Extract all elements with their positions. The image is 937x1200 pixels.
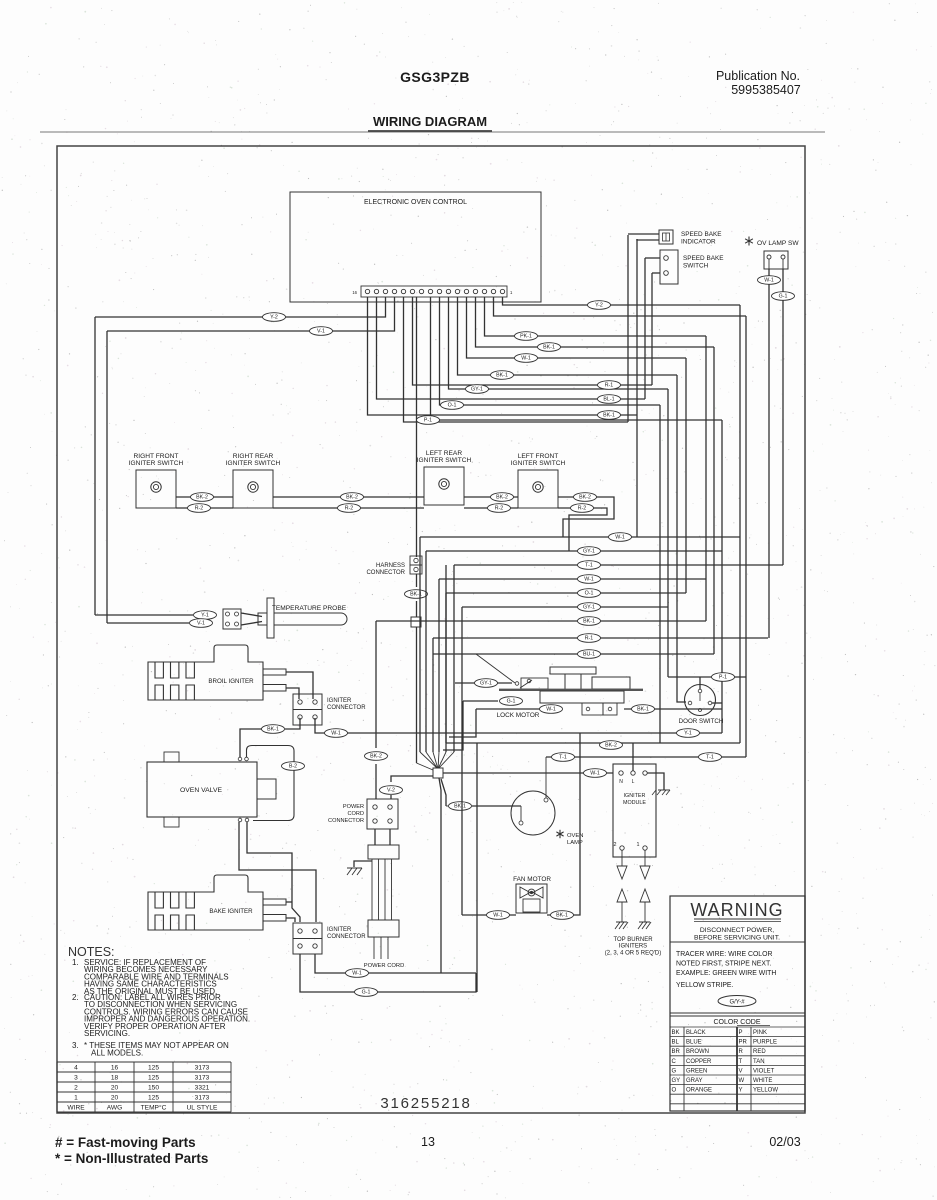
pin 4 bbox=[473, 289, 477, 293]
svg-text:BK-1: BK-1 bbox=[637, 707, 649, 713]
wire run y565 T-1 bbox=[454, 564, 783, 566]
wire P4 bottom right run W-1 bbox=[315, 954, 476, 973]
left rear igniter switch S5 bbox=[424, 467, 464, 505]
wire bake stub A bbox=[286, 901, 292, 903]
wire label W-1 bbox=[515, 354, 538, 363]
wire oven valve loop B-2 bbox=[247, 746, 295, 821]
svg-text:V-1: V-1 bbox=[197, 621, 205, 627]
wire right bus v628 bbox=[627, 235, 629, 422]
wire label BK-1 bbox=[449, 802, 472, 811]
wire lock motor BK-1 right bbox=[624, 708, 722, 710]
wire into door switch top bbox=[699, 677, 701, 689]
oven valve bottom terminal 2 bbox=[245, 818, 249, 822]
wire label BK-2 bbox=[491, 493, 514, 502]
bake igniter E2 bbox=[148, 875, 263, 930]
pin 12 bbox=[401, 289, 405, 293]
wire run y654 BU-1 bbox=[433, 653, 714, 655]
wire to module L bbox=[632, 743, 634, 771]
svg-text:G/Y-#: G/Y-# bbox=[729, 1000, 745, 1006]
warning underline bbox=[694, 918, 781, 920]
svg-text:R: R bbox=[739, 1049, 744, 1055]
wire label V-2 bbox=[380, 786, 403, 795]
svg-text:GY: GY bbox=[672, 1078, 681, 1084]
ground module bbox=[658, 789, 670, 791]
svg-text:W-1: W-1 bbox=[493, 913, 503, 919]
wire lock motor W-1 bbox=[476, 708, 540, 710]
wire label Y-2 bbox=[588, 301, 611, 310]
wire right bus v637 bbox=[636, 239, 638, 537]
svg-text:W-1: W-1 bbox=[352, 971, 362, 977]
svg-text:L: L bbox=[632, 779, 635, 785]
svg-text:W-1: W-1 bbox=[615, 535, 625, 541]
wire pin14 to left bus bbox=[107, 297, 395, 331]
wire label GY-1 bbox=[475, 679, 498, 688]
svg-text:P-1: P-1 bbox=[719, 675, 727, 681]
svg-text:BK-2: BK-2 bbox=[496, 495, 508, 501]
svg-text:W-1: W-1 bbox=[331, 731, 341, 737]
pin 10 bbox=[419, 289, 423, 293]
wire label T-1 bbox=[699, 753, 722, 762]
wire label G-1 bbox=[500, 697, 523, 706]
svg-text:16: 16 bbox=[111, 1065, 119, 1072]
svg-text:BK-1: BK-1 bbox=[267, 727, 279, 733]
wire label GY-1 bbox=[578, 603, 601, 612]
wire v477 from BK-2 run down bbox=[476, 743, 478, 992]
oven lamp DS2 bbox=[511, 791, 555, 835]
oven valve side block bbox=[257, 779, 276, 799]
power cord lower block bbox=[368, 920, 399, 937]
wire ov lamp sw right bbox=[782, 269, 784, 292]
wire BK-1 to oven lamp bbox=[472, 805, 521, 807]
control connector strip bbox=[361, 286, 507, 297]
wire harness lower bbox=[416, 601, 418, 617]
wire bake stub B bbox=[286, 918, 295, 922]
svg-text:4: 4 bbox=[74, 1065, 78, 1072]
right rear igniter switch S4 bbox=[233, 470, 273, 508]
pin 5 bbox=[464, 289, 468, 293]
wire broil stub A bbox=[286, 672, 313, 699]
svg-text:CONNECTOR: CONNECTOR bbox=[366, 570, 405, 576]
svg-text:16: 16 bbox=[352, 290, 357, 295]
svg-text:WIRE: WIRE bbox=[67, 1105, 85, 1112]
svg-text:BAKE IGNITER: BAKE IGNITER bbox=[209, 908, 253, 915]
svg-text:GY-1: GY-1 bbox=[480, 681, 492, 687]
wire igniter row top BK-2 bbox=[176, 496, 233, 498]
svg-text:YELLOW STRIPE.: YELLOW STRIPE. bbox=[676, 982, 734, 989]
svg-text:W-1: W-1 bbox=[590, 771, 600, 777]
svg-text:02/03: 02/03 bbox=[769, 1135, 800, 1149]
wire lock motor GY-1 bbox=[455, 682, 512, 684]
svg-text:IGNITER: IGNITER bbox=[624, 793, 646, 799]
igniter connector P4 bbox=[293, 923, 322, 954]
svg-text:GY-1: GY-1 bbox=[471, 387, 483, 393]
svg-text:OVEN VALVE: OVEN VALVE bbox=[180, 787, 223, 794]
pin 3 bbox=[482, 289, 486, 293]
svg-text:BLUE: BLUE bbox=[686, 1040, 702, 1046]
wire right bus v652 bbox=[651, 273, 653, 385]
wire harness into splice bbox=[417, 763, 434, 770]
svg-text:R-2: R-2 bbox=[345, 506, 354, 512]
svg-text:BK: BK bbox=[672, 1030, 680, 1036]
svg-text:BR: BR bbox=[672, 1049, 681, 1055]
svg-text:T-1: T-1 bbox=[585, 563, 593, 569]
wire lock motor G-1 bbox=[463, 700, 498, 702]
probe connector bbox=[223, 609, 241, 629]
svg-text:2: 2 bbox=[74, 1085, 78, 1092]
svg-text:G-1: G-1 bbox=[362, 990, 371, 996]
svg-text:V-2: V-2 bbox=[387, 788, 395, 794]
oven valve top tab bbox=[164, 752, 179, 762]
svg-text:1: 1 bbox=[637, 842, 640, 848]
svg-text:150: 150 bbox=[148, 1085, 159, 1092]
svg-text:O-1: O-1 bbox=[448, 403, 457, 409]
svg-text:BK-1: BK-1 bbox=[603, 413, 615, 419]
speed bake indicator DS1 bbox=[659, 230, 673, 244]
wire right bus v677 bbox=[677, 375, 686, 702]
svg-text:T-1: T-1 bbox=[559, 755, 567, 761]
color code divider 2 bbox=[670, 1015, 805, 1017]
wire label R-2 bbox=[188, 504, 211, 513]
svg-text:TEMP°C: TEMP°C bbox=[141, 1104, 167, 1112]
title underline bbox=[368, 130, 492, 132]
svg-text:EXAMPLE: GREEN WIRE WITH: EXAMPLE: GREEN WIRE WITH bbox=[676, 970, 776, 977]
svg-text:1: 1 bbox=[74, 1095, 78, 1102]
svg-text:3: 3 bbox=[74, 1075, 78, 1082]
warning divider bbox=[670, 941, 805, 943]
wire indicator feeds bbox=[628, 233, 659, 235]
svg-text:W: W bbox=[739, 1078, 745, 1084]
tracer example oval bbox=[718, 996, 756, 1007]
svg-text:R-1: R-1 bbox=[585, 636, 594, 642]
svg-text:IGNITER SWITCH: IGNITER SWITCH bbox=[417, 457, 472, 464]
wire T-1 run bbox=[546, 756, 746, 758]
wire label R-1 bbox=[578, 634, 601, 643]
svg-text:BK-1: BK-1 bbox=[556, 913, 568, 919]
svg-text:BK-1: BK-1 bbox=[543, 345, 555, 351]
svg-text:VIOLET: VIOLET bbox=[753, 1068, 775, 1074]
svg-text:1.: 1. bbox=[72, 958, 79, 967]
svg-text:LEFT FRONT: LEFT FRONT bbox=[518, 453, 559, 460]
diagram border frame bbox=[57, 146, 805, 1113]
wire BK-2 up bbox=[445, 565, 447, 743]
svg-text:IGNITER SWITCH: IGNITER SWITCH bbox=[511, 460, 566, 467]
color code divider c bbox=[750, 1027, 752, 1111]
color code divider 1 bbox=[670, 1012, 805, 1014]
pin 13 bbox=[392, 289, 396, 293]
wire lock motor left zigzag B bbox=[449, 709, 476, 737]
svg-text:B-2: B-2 bbox=[289, 764, 297, 770]
wire label BK-2 bbox=[365, 752, 388, 761]
svg-text:Publication No.: Publication No. bbox=[716, 69, 800, 83]
pin 2 bbox=[491, 289, 495, 293]
svg-text:IGNITERS: IGNITERS bbox=[619, 944, 647, 950]
wire run y579 W-1 bbox=[439, 578, 706, 580]
svg-text:BROIL IGNITER: BROIL IGNITER bbox=[208, 678, 254, 685]
svg-text:BK-1: BK-1 bbox=[454, 804, 466, 810]
electronic oven control box U1 bbox=[290, 192, 541, 302]
svg-text:NOTED FIRST, STRIPE NEXT.: NOTED FIRST, STRIPE NEXT. bbox=[676, 961, 771, 968]
svg-text:GREEN: GREEN bbox=[686, 1068, 707, 1074]
lock motor body bbox=[540, 691, 624, 703]
svg-text:OV LAMP SW: OV LAMP SW bbox=[757, 240, 799, 247]
svg-text:LEFT REAR: LEFT REAR bbox=[426, 450, 462, 457]
wire splice to oven lamp feed bbox=[441, 779, 446, 806]
wire label GY-1 bbox=[578, 547, 601, 556]
wire label BK-1 bbox=[405, 590, 428, 599]
svg-text:PK-1: PK-1 bbox=[520, 334, 532, 340]
splice node B bbox=[433, 768, 443, 778]
svg-text:TAN: TAN bbox=[753, 1059, 765, 1065]
wire x376 to power cord connector bbox=[375, 764, 377, 799]
wire door switch top P-1 bbox=[668, 676, 746, 678]
oven valve L1 bbox=[147, 762, 257, 817]
wire pin11 run bbox=[413, 297, 653, 385]
svg-text:LOCK MOTOR: LOCK MOTOR bbox=[497, 712, 540, 719]
wire funnel verticals bbox=[419, 537, 421, 752]
wire label W-1 bbox=[487, 911, 510, 920]
igniter module U2 bbox=[613, 764, 656, 857]
wire pin16 to left bus bbox=[95, 297, 386, 317]
wire left bus x107 bbox=[106, 331, 108, 623]
wire left bus x376 bbox=[375, 621, 377, 748]
pin 8 bbox=[437, 289, 441, 293]
svg-text:AWG: AWG bbox=[107, 1105, 123, 1112]
svg-text:5995385407: 5995385407 bbox=[731, 83, 801, 97]
wire label W-1 bbox=[346, 969, 369, 978]
asterisk oven lamp bbox=[556, 830, 563, 838]
wire ov lamp sw left bbox=[768, 269, 770, 276]
svg-text:BU-1: BU-1 bbox=[583, 652, 595, 658]
svg-text:BEFORE SERVICING UNIT.: BEFORE SERVICING UNIT. bbox=[694, 935, 780, 942]
svg-text:1: 1 bbox=[510, 290, 513, 295]
svg-text:N: N bbox=[619, 779, 623, 785]
svg-text:BK-2: BK-2 bbox=[196, 495, 208, 501]
svg-text:O-1: O-1 bbox=[585, 591, 594, 597]
speed bake switch S1 bbox=[660, 250, 678, 284]
wire pin10 drop to harness bbox=[416, 297, 418, 557]
wire pin5 run bbox=[467, 297, 687, 358]
wire label W-1 bbox=[584, 769, 607, 778]
wire right bus v645 bbox=[644, 258, 646, 399]
wire probe feed bottom bbox=[107, 622, 189, 624]
svg-text:Y-2: Y-2 bbox=[595, 303, 603, 309]
wire connector P3 left-bottom to oven valve bbox=[285, 718, 300, 729]
wire label V-1 bbox=[190, 619, 213, 628]
wire label G-1 bbox=[772, 292, 795, 301]
svg-text:SWITCH: SWITCH bbox=[683, 263, 709, 270]
wire igniter row bottom R-2 bbox=[176, 507, 233, 509]
wire label R-2 bbox=[338, 504, 361, 513]
door switch S7 bbox=[685, 685, 716, 716]
wire right bus v686 bbox=[685, 358, 687, 593]
wire BK-2 run to module bbox=[446, 742, 740, 744]
wire right bus v660 bbox=[659, 405, 661, 743]
wire right bus v668 bbox=[667, 389, 669, 677]
wire splice down long bbox=[439, 778, 441, 973]
wire junction down bbox=[416, 627, 418, 763]
svg-text:RIGHT FRONT: RIGHT FRONT bbox=[134, 453, 179, 460]
power cord strain relief bbox=[368, 845, 399, 859]
svg-text:R-1: R-1 bbox=[605, 383, 614, 389]
probe rod bbox=[274, 613, 347, 625]
svg-text:PR: PR bbox=[739, 1040, 748, 1046]
svg-text:T: T bbox=[739, 1059, 743, 1065]
left front igniter switch S6 bbox=[518, 470, 558, 508]
svg-text:20: 20 bbox=[111, 1085, 119, 1092]
svg-text:SERVICING.: SERVICING. bbox=[84, 1029, 130, 1038]
oven valve bottom terminal 1 bbox=[238, 818, 242, 822]
svg-text:GY-1: GY-1 bbox=[583, 605, 595, 611]
svg-text:FAN MOTOR: FAN MOTOR bbox=[513, 876, 551, 883]
svg-text:Y: Y bbox=[739, 1088, 743, 1094]
svg-text:GRAY: GRAY bbox=[686, 1078, 703, 1084]
wire label BK-1 bbox=[538, 343, 561, 352]
color code divider a bbox=[683, 1027, 685, 1111]
svg-text:OVEN: OVEN bbox=[567, 833, 583, 839]
svg-text:TOP BURNER: TOP BURNER bbox=[613, 937, 653, 943]
wire label W-1 bbox=[540, 705, 563, 714]
svg-text:125: 125 bbox=[148, 1095, 159, 1102]
oven valve top terminal 1 bbox=[238, 757, 242, 761]
svg-text:COLOR CODE: COLOR CODE bbox=[713, 1019, 760, 1026]
svg-text:3173: 3173 bbox=[195, 1095, 210, 1102]
wire label W-1 bbox=[609, 533, 632, 542]
svg-text:DISCONNECT POWER,: DISCONNECT POWER, bbox=[700, 927, 774, 934]
svg-text:W-1: W-1 bbox=[764, 278, 774, 284]
wire label BK-1 bbox=[578, 617, 601, 626]
svg-text:HARNESS: HARNESS bbox=[376, 563, 405, 569]
svg-text:BK-2: BK-2 bbox=[346, 495, 358, 501]
wire run y638 R-1 bbox=[433, 637, 768, 639]
svg-text:G: G bbox=[672, 1068, 677, 1074]
svg-text:RED: RED bbox=[753, 1049, 766, 1055]
wire label BK-2 bbox=[341, 493, 364, 502]
svg-text:GSG3PZB: GSG3PZB bbox=[400, 69, 470, 85]
svg-text:CONNECTOR: CONNECTOR bbox=[327, 934, 366, 940]
junction node A bbox=[411, 617, 421, 627]
svg-text:V: V bbox=[739, 1068, 743, 1074]
svg-text:DOOR SWITCH: DOOR SWITCH bbox=[679, 718, 724, 725]
svg-text:CONNECTOR: CONNECTOR bbox=[328, 818, 364, 824]
wire pin9 run bbox=[431, 297, 723, 420]
warning underline 2 bbox=[694, 921, 781, 923]
svg-text:SPEED BAKE: SPEED BAKE bbox=[683, 255, 724, 262]
wire run y551 GY-1 bbox=[426, 550, 722, 552]
wire pin6 run bbox=[458, 297, 678, 375]
svg-text:13: 13 bbox=[421, 1135, 435, 1149]
svg-text:G-1: G-1 bbox=[507, 699, 516, 705]
wire door switch right bbox=[712, 702, 722, 704]
pin 15 bbox=[374, 289, 378, 293]
svg-text:# = Fast-moving Parts: # = Fast-moving Parts bbox=[55, 1135, 196, 1150]
wire label B-2 bbox=[282, 762, 305, 771]
power cord bundle bbox=[371, 859, 373, 920]
wire label G-1 bbox=[355, 988, 378, 997]
svg-text:BL: BL bbox=[672, 1040, 680, 1046]
svg-text:P-1: P-1 bbox=[424, 418, 432, 424]
wire right bus v740 bbox=[739, 305, 741, 743]
svg-text:(2, 3, 4 OR 5 REQ'D): (2, 3, 4 OR 5 REQ'D) bbox=[605, 951, 662, 957]
svg-text:Y-2: Y-2 bbox=[270, 315, 278, 321]
svg-text:BK-2: BK-2 bbox=[579, 495, 591, 501]
wire lock motor left zigzag A bbox=[443, 701, 463, 750]
wire label V-1 bbox=[310, 327, 333, 336]
wire harness to junction bbox=[416, 574, 418, 587]
wire pin7 run bbox=[449, 297, 669, 389]
wire pin15 run bbox=[377, 297, 646, 399]
svg-text:3173: 3173 bbox=[195, 1065, 210, 1072]
wire P4 bottom left run G-1 bbox=[300, 954, 476, 992]
wire splice to module run bbox=[443, 772, 613, 774]
svg-text:W-1: W-1 bbox=[521, 356, 531, 362]
pin 14 bbox=[383, 289, 387, 293]
wire label BU-1 bbox=[578, 650, 601, 659]
color code table bbox=[670, 1026, 805, 1028]
svg-text:3173: 3173 bbox=[195, 1075, 210, 1082]
igniter connector P3 bbox=[293, 694, 322, 725]
svg-text:TRACER WIRE: WIRE COLOR: TRACER WIRE: WIRE COLOR bbox=[676, 951, 772, 958]
wire label BK-2 bbox=[574, 493, 597, 502]
svg-text:BROWN: BROWN bbox=[686, 1049, 709, 1055]
wire fan motor right bbox=[547, 733, 580, 915]
wire connector P3 right-bottom long run bbox=[315, 718, 722, 733]
wire splice left stub to power cord bbox=[391, 776, 433, 782]
pin 9 bbox=[428, 289, 432, 293]
svg-text:2: 2 bbox=[614, 842, 617, 848]
svg-text:YELLOW: YELLOW bbox=[753, 1088, 778, 1094]
svg-text:3.: 3. bbox=[72, 1041, 79, 1050]
wire label BK-2 bbox=[600, 741, 623, 750]
oven valve bottom tab bbox=[164, 817, 179, 827]
wire right bus v746 bbox=[745, 316, 747, 757]
wire label BK-1 bbox=[598, 411, 621, 420]
svg-text:BL-1: BL-1 bbox=[603, 397, 614, 403]
temperature probe body bbox=[241, 613, 262, 617]
wire label Y-2 bbox=[263, 313, 286, 322]
svg-text:BK-1: BK-1 bbox=[583, 619, 595, 625]
lock motor switch bbox=[521, 678, 548, 689]
wire label W-1 bbox=[578, 575, 601, 584]
wire right bus v714 bbox=[713, 347, 715, 654]
svg-text:NOTES:: NOTES: bbox=[68, 945, 115, 959]
svg-text:V-1: V-1 bbox=[317, 329, 325, 335]
svg-text:18: 18 bbox=[111, 1075, 119, 1082]
svg-text:3321: 3321 bbox=[195, 1085, 210, 1092]
color code divider b bbox=[736, 1027, 738, 1111]
svg-text:Y-1: Y-1 bbox=[201, 613, 209, 619]
svg-text:125: 125 bbox=[148, 1065, 159, 1072]
svg-text:IGNITER SWITCH: IGNITER SWITCH bbox=[129, 460, 184, 467]
svg-text:2.: 2. bbox=[72, 993, 79, 1002]
wire label P-1 bbox=[417, 416, 440, 425]
svg-text:PINK: PINK bbox=[753, 1030, 767, 1036]
svg-text:125: 125 bbox=[148, 1075, 159, 1082]
wire label PK-1 bbox=[515, 332, 538, 341]
svg-text:R-2: R-2 bbox=[578, 506, 587, 512]
wire label BK-1 bbox=[632, 705, 655, 714]
wire diagonal into lock switch bbox=[476, 654, 515, 683]
wire pin8 run bbox=[440, 297, 661, 405]
svg-text:ELECTRONIC OVEN CONTROL: ELECTRONIC OVEN CONTROL bbox=[364, 199, 467, 206]
svg-text:G-1: G-1 bbox=[779, 294, 788, 300]
lock motor upper right block bbox=[592, 677, 630, 689]
svg-text:POWER CORD: POWER CORD bbox=[364, 963, 405, 969]
oven valve top terminal 2 bbox=[245, 757, 249, 761]
svg-text:CORD: CORD bbox=[348, 811, 364, 817]
wire fan motor left bbox=[462, 914, 516, 916]
svg-text:INDICATOR: INDICATOR bbox=[681, 239, 716, 246]
wire label BK-1 bbox=[491, 371, 514, 380]
